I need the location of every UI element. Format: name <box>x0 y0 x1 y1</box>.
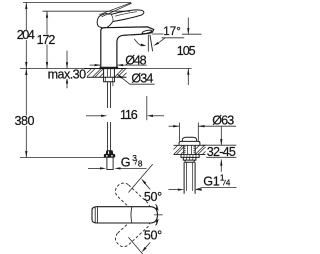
svg-text:G: G <box>121 156 131 170</box>
svg-text:17°: 17° <box>163 26 181 38</box>
svg-text:G: G <box>203 175 213 189</box>
svg-text:172: 172 <box>37 33 56 47</box>
svg-text:4: 4 <box>226 178 231 188</box>
svg-text:8: 8 <box>138 158 143 168</box>
svg-text:1: 1 <box>220 172 225 182</box>
svg-text:380: 380 <box>15 114 35 128</box>
svg-text:32-45: 32-45 <box>207 145 236 159</box>
svg-text:Ø48: Ø48 <box>125 53 146 67</box>
svg-text:1: 1 <box>213 175 220 189</box>
svg-text:50°: 50° <box>144 228 162 242</box>
svg-text:105: 105 <box>177 44 196 58</box>
svg-text:max.30: max.30 <box>48 67 87 81</box>
svg-text:204: 204 <box>17 28 35 42</box>
svg-text:116: 116 <box>120 108 138 122</box>
svg-text:Ø34: Ø34 <box>131 71 153 85</box>
svg-text:Ø63: Ø63 <box>212 114 234 128</box>
svg-text:50°: 50° <box>144 190 162 204</box>
